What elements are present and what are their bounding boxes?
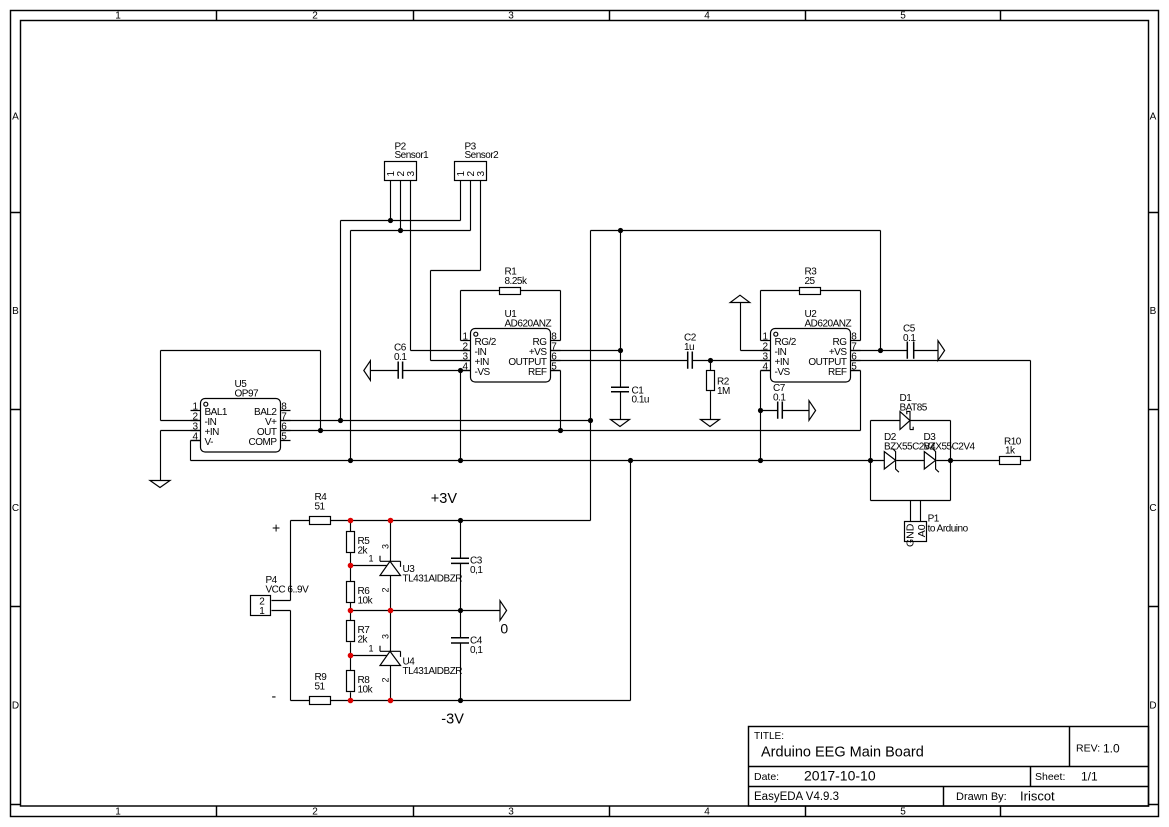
svg-text:5: 5 bbox=[281, 432, 287, 443]
svg-text:10k: 10k bbox=[358, 685, 374, 696]
svg-text:V-: V- bbox=[205, 437, 214, 448]
svg-text:4: 4 bbox=[704, 807, 710, 818]
svg-text:AD620ANZ: AD620ANZ bbox=[505, 319, 552, 330]
svg-text:0,1: 0,1 bbox=[470, 645, 483, 656]
svg-text:1: 1 bbox=[259, 606, 265, 617]
svg-text:A: A bbox=[1150, 112, 1157, 123]
svg-text:1: 1 bbox=[115, 11, 121, 22]
svg-text:3: 3 bbox=[381, 634, 391, 639]
svg-text:TL431AIDBZR: TL431AIDBZR bbox=[403, 666, 463, 677]
svg-text:REF: REF bbox=[528, 367, 547, 378]
svg-text:Iriscot: Iriscot bbox=[1020, 789, 1055, 804]
svg-text:Sensor2: Sensor2 bbox=[465, 150, 500, 161]
svg-text:C: C bbox=[12, 503, 19, 514]
svg-text:0.1: 0.1 bbox=[773, 393, 786, 404]
svg-text:C: C bbox=[1149, 503, 1156, 514]
svg-text:-VS: -VS bbox=[775, 367, 791, 378]
svg-text:A: A bbox=[12, 112, 19, 123]
svg-text:+: + bbox=[272, 520, 280, 536]
svg-text:1: 1 bbox=[368, 554, 373, 564]
svg-text:4: 4 bbox=[462, 362, 468, 373]
svg-text:Date:: Date: bbox=[754, 771, 779, 783]
svg-text:-VS: -VS bbox=[475, 367, 491, 378]
svg-text:51: 51 bbox=[315, 682, 326, 693]
svg-text:3: 3 bbox=[381, 544, 391, 549]
svg-text:Sheet:: Sheet: bbox=[1035, 771, 1065, 783]
svg-text:to Arduino: to Arduino bbox=[928, 523, 969, 534]
svg-text:+3V: +3V bbox=[431, 491, 458, 507]
svg-text:1M: 1M bbox=[717, 386, 730, 397]
svg-text:5: 5 bbox=[551, 362, 557, 373]
svg-text:Drawn By:: Drawn By: bbox=[956, 791, 1007, 803]
svg-text:0.1: 0.1 bbox=[903, 333, 916, 344]
svg-text:TITLE:: TITLE: bbox=[754, 731, 784, 742]
svg-text:REF: REF bbox=[828, 367, 847, 378]
svg-text:51: 51 bbox=[315, 502, 326, 513]
svg-text:5: 5 bbox=[851, 362, 857, 373]
svg-text:B: B bbox=[12, 306, 19, 317]
svg-text:0: 0 bbox=[500, 621, 508, 637]
svg-text:COMP: COMP bbox=[249, 437, 278, 448]
svg-text:5: 5 bbox=[900, 807, 906, 818]
svg-text:2k: 2k bbox=[358, 635, 369, 646]
svg-text:2: 2 bbox=[381, 587, 391, 592]
svg-text:-3V: -3V bbox=[441, 711, 464, 727]
svg-text:GND: GND bbox=[904, 523, 916, 547]
svg-text:3: 3 bbox=[406, 171, 417, 177]
svg-text:1.0: 1.0 bbox=[1103, 742, 1120, 756]
svg-text:10k: 10k bbox=[358, 596, 374, 607]
svg-text:0.1: 0.1 bbox=[394, 352, 407, 363]
svg-text:Sensor1: Sensor1 bbox=[395, 150, 430, 161]
svg-text:Arduino EEG Main Board: Arduino EEG Main Board bbox=[761, 745, 924, 761]
svg-text:TL431AIDBZR: TL431AIDBZR bbox=[403, 574, 463, 585]
svg-text:3: 3 bbox=[476, 171, 487, 177]
svg-text:-: - bbox=[272, 688, 277, 704]
svg-text:2: 2 bbox=[312, 807, 318, 818]
svg-text:1u: 1u bbox=[684, 342, 694, 353]
svg-text:2k: 2k bbox=[358, 546, 369, 557]
svg-text:2: 2 bbox=[312, 11, 318, 22]
svg-text:4: 4 bbox=[762, 362, 768, 373]
svg-text:BZX55C2V4: BZX55C2V4 bbox=[924, 442, 976, 453]
svg-text:OP97: OP97 bbox=[235, 389, 260, 400]
svg-text:25: 25 bbox=[805, 276, 816, 287]
svg-text:8.25k: 8.25k bbox=[505, 276, 528, 287]
svg-text:1: 1 bbox=[115, 807, 121, 818]
svg-text:D: D bbox=[12, 701, 19, 712]
svg-text:2: 2 bbox=[381, 677, 391, 682]
svg-text:A0: A0 bbox=[916, 524, 928, 537]
svg-text:1k: 1k bbox=[1005, 446, 1016, 457]
svg-text:VCC 6..9V: VCC 6..9V bbox=[266, 585, 310, 596]
svg-text:REV:: REV: bbox=[1076, 743, 1100, 755]
svg-text:4: 4 bbox=[704, 11, 710, 22]
svg-text:EasyEDA V4.9.3: EasyEDA V4.9.3 bbox=[754, 791, 839, 803]
svg-text:1: 1 bbox=[368, 644, 373, 654]
svg-text:B: B bbox=[1150, 306, 1157, 317]
svg-text:1/1: 1/1 bbox=[1081, 770, 1098, 784]
svg-text:3: 3 bbox=[508, 807, 514, 818]
svg-text:4: 4 bbox=[192, 432, 198, 443]
svg-text:BAT85: BAT85 bbox=[900, 403, 928, 414]
svg-text:AD620ANZ: AD620ANZ bbox=[805, 319, 852, 330]
svg-text:0.1u: 0.1u bbox=[632, 394, 649, 405]
svg-text:2017-10-10: 2017-10-10 bbox=[804, 768, 876, 784]
svg-text:5: 5 bbox=[900, 11, 906, 22]
svg-text:D: D bbox=[1149, 701, 1156, 712]
svg-text:3: 3 bbox=[508, 11, 514, 22]
svg-text:0,1: 0,1 bbox=[470, 565, 483, 576]
